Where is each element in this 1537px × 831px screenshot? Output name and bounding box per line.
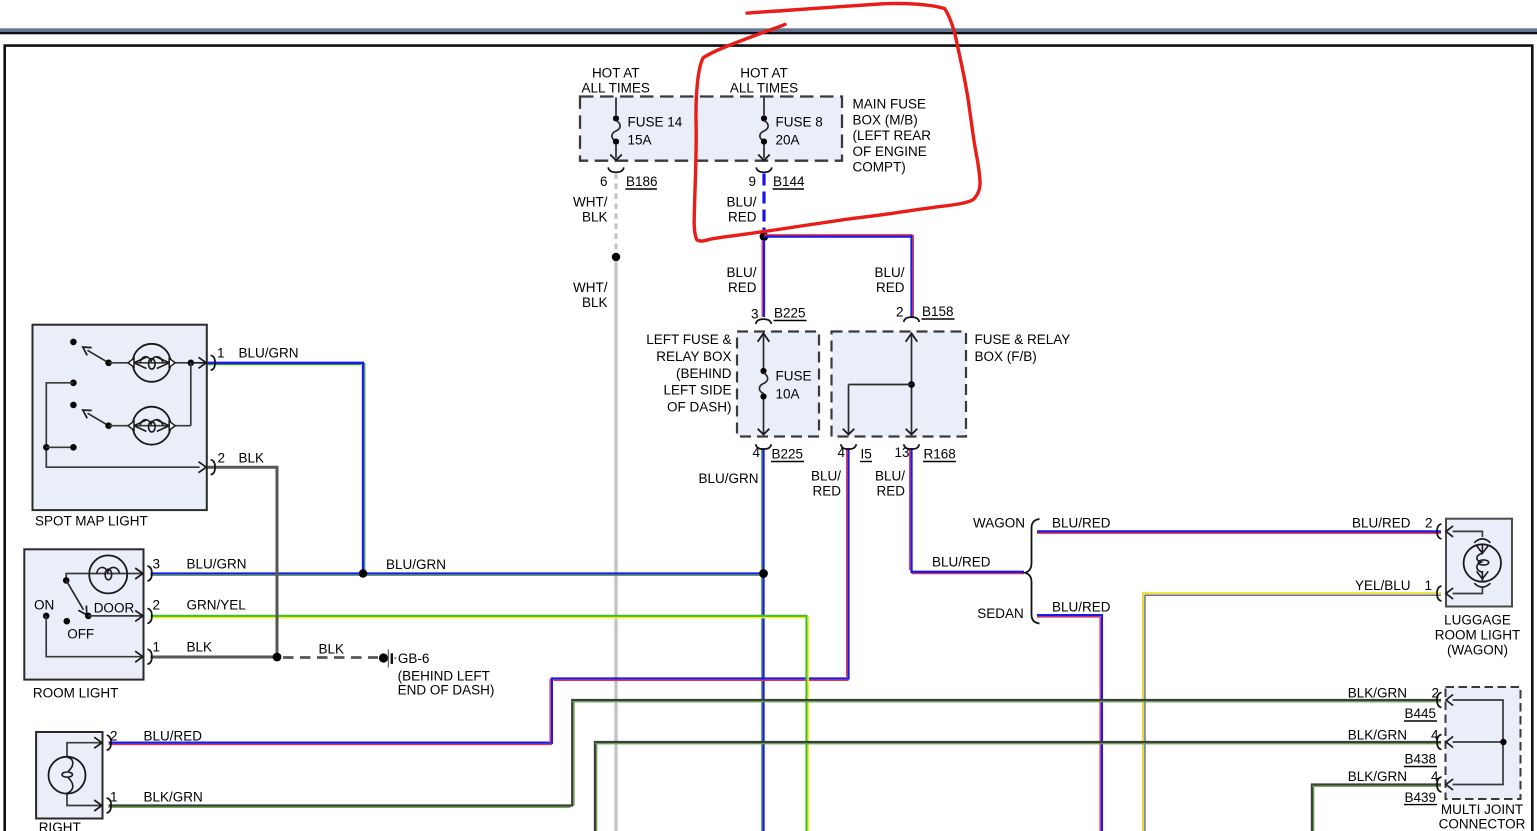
svg-text:LEFT FUSE &: LEFT FUSE & (646, 332, 731, 347)
svg-text:WHT/: WHT/ (573, 280, 608, 295)
wire BLU/RED from I5 pin4 down then left to RIGHT light pin2 (109, 448, 849, 743)
node junction dot BLU/GRN at B225 drop (759, 569, 768, 578)
svg-text:FUSE 14: FUSE 14 (628, 115, 683, 130)
connector B144 arc pin9 (756, 167, 772, 172)
svg-text:BLU/RED: BLU/RED (1052, 516, 1111, 531)
connector B225 arc pin3 above box (756, 319, 772, 324)
svg-text:BLU/RED: BLU/RED (932, 555, 991, 570)
svg-text:LUGGAGE: LUGGAGE (1444, 613, 1511, 628)
connector arc pin4 multi joint B438 (1437, 735, 1442, 750)
right light pin2 arrow (94, 737, 102, 748)
svg-text:LEFT SIDE: LEFT SIDE (663, 383, 731, 398)
svg-text:BLK: BLK (187, 640, 213, 655)
svg-text:GRN/YEL: GRN/YEL (187, 598, 247, 613)
svg-text:B445: B445 (1405, 706, 1437, 721)
svg-text:9: 9 (748, 174, 756, 189)
svg-text:1: 1 (1424, 578, 1432, 593)
svg-text:B158: B158 (922, 304, 954, 319)
room light pin3 arrow (135, 568, 143, 579)
svg-text:SPOT MAP LIGHT: SPOT MAP LIGHT (35, 514, 148, 529)
svg-text:10A: 10A (776, 387, 800, 402)
top window divider band (0, 28, 1537, 32)
svg-text:BLU/: BLU/ (726, 265, 756, 280)
connector arc pin4 multi joint B439 (1437, 777, 1442, 792)
wire BLK dashed to ground GB-6 (283, 656, 378, 659)
connector B158 arc pin2 above box (904, 317, 920, 322)
connector arc pin1 right light (107, 798, 112, 813)
room light OFF contact (64, 618, 71, 625)
svg-text:BLU/GRN: BLU/GRN (187, 557, 247, 572)
wire BLU/RED horizontal from junction to B158 drop (764, 234, 913, 236)
svg-text:RED: RED (728, 210, 757, 225)
svg-text:2: 2 (896, 305, 904, 320)
svg-text:FUSE & RELAY: FUSE & RELAY (975, 332, 1071, 347)
svg-text:2: 2 (152, 598, 160, 613)
right light internal wires (67, 743, 101, 806)
svg-text:BLK: BLK (582, 295, 608, 310)
room light lamp feed wire (66, 574, 142, 581)
right light box (36, 732, 102, 819)
svg-text:2: 2 (217, 451, 225, 466)
connector arc pin2 luggage (1437, 524, 1442, 539)
fuse F14 FUSE 14 15A symbol (610, 115, 622, 160)
svg-text:15A: 15A (628, 133, 652, 148)
connector arc pin1 luggage (1437, 586, 1442, 601)
connector B186 arc pin6 (608, 167, 624, 172)
svg-text:4: 4 (837, 445, 845, 460)
svg-text:20A: 20A (776, 133, 800, 148)
svg-text:B225: B225 (772, 447, 804, 462)
svg-text:4: 4 (1431, 769, 1439, 784)
luggage light lamp (1464, 539, 1501, 587)
svg-text:BLU/RED: BLU/RED (1352, 516, 1411, 531)
room light DOOR contact (85, 613, 92, 620)
svg-text:B438: B438 (1405, 752, 1437, 767)
fuse F14 lead-in wire (615, 98, 617, 116)
svg-text:COMPT): COMPT) (853, 160, 906, 175)
wire BLK/GRN from RIGHT light pin1 right, up, to MULTI JOINT pin2 (109, 700, 1442, 806)
svg-text:END OF DASH): END OF DASH) (398, 683, 495, 698)
svg-text:4: 4 (752, 445, 760, 460)
brace WAGON/SEDAN split (1025, 519, 1040, 624)
svg-text:FUSE: FUSE (776, 369, 812, 384)
svg-text:BOX (M/B): BOX (M/B) (853, 112, 918, 127)
svg-text:I5: I5 (861, 447, 872, 462)
svg-text:BLU/GRN: BLU/GRN (239, 346, 299, 361)
node junction dot BLU/GRN at x363 (359, 569, 367, 577)
svg-text:MULTI JOINT: MULTI JOINT (1441, 802, 1523, 817)
svg-text:ALL TIMES: ALL TIMES (582, 81, 650, 96)
wire WHT/BLK dashed from B186 (615, 174, 618, 254)
svg-text:(LEFT REAR: (LEFT REAR (853, 128, 932, 143)
svg-text:B186: B186 (626, 174, 658, 189)
svg-text:CONNECTOR: CONNECTOR (1439, 816, 1526, 831)
wire BLK from ROOM LIGHT pin1 to junction (151, 656, 278, 659)
wire BLU/RED WAGON branch to LUGGAGE pin2 (1037, 530, 1441, 532)
wire BLK from SPOT MAP pin2 right then down to ROOM LIGHT pin1 wire (151, 467, 278, 657)
wire BLU/RED from R168 pin13 down then right to brace (912, 448, 1025, 572)
connector I5 arc pin4 below box (841, 444, 857, 449)
fuse FUSE 10A symbol inside left box (758, 333, 770, 434)
spot map lamp1 wire (109, 362, 191, 364)
right light pin1 arrow (94, 800, 102, 811)
fuse F8 lead-in wire (763, 98, 765, 116)
node junction dot on WHT/BLK wire (612, 253, 620, 261)
wire BLU/RED vertical down to B158 (910, 235, 912, 317)
wire BLU/GRN from B225 pin4 down to junction (762, 448, 764, 831)
luggage light internal wires (1453, 531, 1483, 593)
svg-text:BLK: BLK (319, 642, 345, 657)
svg-text:BLU/RED: BLU/RED (1052, 600, 1111, 615)
wire WHT/BLK solid vertical to bottom (614, 261, 617, 831)
svg-text:BLU/: BLU/ (874, 265, 904, 280)
room light ON contact (43, 613, 50, 620)
svg-text:BLK/GRN: BLK/GRN (1348, 728, 1407, 743)
svg-text:DOOR: DOOR (94, 601, 135, 616)
svg-text:YEL/BLU: YEL/BLU (1355, 578, 1411, 593)
svg-text:2: 2 (1431, 686, 1439, 701)
fuse and relay box F/B (832, 332, 967, 437)
connector R168 arc pin13 below box (904, 444, 920, 449)
svg-text:1: 1 (152, 640, 160, 655)
svg-text:ON: ON (34, 598, 54, 613)
svg-text:RED: RED (728, 280, 757, 295)
connector arc pin2 multi joint B445 (1437, 693, 1442, 708)
ground GB-6 symbol (379, 653, 388, 662)
wire BLU/RED dashed from B144 (762, 174, 765, 233)
svg-text:HOT AT: HOT AT (592, 66, 640, 81)
svg-text:RELAY BOX: RELAY BOX (656, 349, 731, 364)
spot map pin1 arrow (191, 357, 206, 368)
svg-text:BLU/RED: BLU/RED (144, 729, 203, 744)
svg-text:1: 1 (217, 346, 225, 361)
svg-text:RIGHT: RIGHT (39, 820, 81, 831)
multi joint pin4 arrow B439 (1446, 779, 1453, 790)
spot map node junction lamp1 out (188, 360, 195, 367)
svg-text:BLK: BLK (239, 451, 265, 466)
svg-text:FUSE 8: FUSE 8 (776, 115, 823, 130)
multi joint internal bus (1453, 700, 1507, 785)
svg-text:3: 3 (751, 307, 759, 322)
svg-text:2: 2 (1425, 516, 1433, 531)
svg-text:HOT AT: HOT AT (740, 66, 788, 81)
svg-text:BLU/GRN: BLU/GRN (699, 471, 759, 486)
svg-text:MAIN FUSE: MAIN FUSE (853, 97, 927, 112)
svg-text:1: 1 (110, 790, 118, 805)
room light box (24, 549, 143, 679)
spot map pin2 arrow (199, 462, 207, 473)
svg-text:RED: RED (876, 484, 905, 499)
multi joint pin2 arrow (1446, 695, 1453, 706)
svg-text:WAGON: WAGON (973, 516, 1025, 531)
svg-text:RED: RED (812, 484, 841, 499)
svg-text:BLK/GRN: BLK/GRN (1348, 769, 1407, 784)
connector arc pin2 right light (107, 735, 112, 750)
wire BLU/GRN horizontal from ROOM LIGHT pin3 to B225 junction (151, 572, 764, 574)
svg-text:ROOM LIGHT: ROOM LIGHT (1435, 628, 1521, 643)
luggage pin1 arrow (1446, 588, 1453, 599)
room light pin2 arrow (135, 610, 143, 621)
spot map switch2 lever (83, 410, 112, 429)
svg-text:B144: B144 (773, 174, 805, 189)
svg-text:ROOM LIGHT: ROOM LIGHT (33, 686, 119, 701)
wire BLU/RED vertical from junction down to B225 pin3 (763, 240, 765, 317)
room light ON to pin1 wire (46, 616, 142, 657)
svg-text:2: 2 (110, 729, 118, 744)
svg-text:BOX (F/B): BOX (F/B) (975, 349, 1037, 364)
svg-text:OF ENGINE: OF ENGINE (853, 144, 927, 159)
svg-text:BLU/GRN: BLU/GRN (386, 557, 446, 572)
wire BLK/GRN B439 from off page bottom up then right to MULTI JOINT lower pin4 (1312, 785, 1441, 831)
spot map switch2 contact node (70, 402, 77, 409)
svg-text:GB-6: GB-6 (398, 651, 430, 666)
svg-text:13: 13 (894, 445, 909, 460)
svg-text:RED: RED (876, 280, 905, 295)
F/B internal feed wire with junction (843, 333, 918, 434)
annotation red hand-drawn loop (694, 4, 980, 242)
left fuse and relay box (737, 332, 819, 437)
svg-text:BLK: BLK (582, 210, 608, 225)
spot map lamp1 (128, 344, 175, 382)
room light switch lever (63, 577, 87, 615)
wire BLU/RED SEDAN branch down off page (1037, 615, 1102, 831)
svg-text:B439: B439 (1405, 790, 1437, 805)
fuse F8 FUSE 8 20A symbol (758, 115, 770, 160)
luggage pin2 arrow (1446, 526, 1453, 537)
spot map switch1 contact node (70, 339, 77, 346)
wire BLU/GRN from SPOT MAP pin1 right then down to junction (151, 363, 364, 574)
svg-text:WHT/: WHT/ (573, 195, 608, 210)
connector arc pin2 spot map (211, 460, 216, 475)
wire BLK/GRN B438 from off page bottom up then right to MULTI JOINT pin4 (595, 742, 1441, 831)
svg-text:(BEHIND: (BEHIND (676, 366, 732, 381)
node junction dot B144 feed (760, 232, 769, 241)
svg-text:R168: R168 (924, 447, 956, 462)
svg-text:4: 4 (1431, 728, 1439, 743)
room light lamp (89, 555, 127, 593)
node junction dot BLK (273, 653, 282, 662)
multi joint pin4 arrow B438 (1446, 737, 1453, 748)
svg-text:BLU/: BLU/ (726, 195, 756, 210)
svg-text:OF DASH): OF DASH) (667, 400, 732, 415)
spot map ground rail (43, 380, 200, 468)
svg-text:BLK/GRN: BLK/GRN (144, 790, 203, 805)
connector arc pin3 room light (147, 566, 152, 581)
spot map light box (33, 325, 207, 510)
svg-text:(WAGON): (WAGON) (1447, 643, 1508, 658)
svg-text:SEDAN: SEDAN (977, 606, 1024, 621)
svg-text:BLU/: BLU/ (875, 469, 905, 484)
multi joint connector box (1446, 687, 1521, 799)
spot map lamp2 to junction riser (190, 363, 192, 426)
svg-text:BLU/: BLU/ (811, 469, 841, 484)
room light pin1 arrow (135, 651, 143, 662)
right light lamp (49, 757, 86, 794)
spot map lamp2 (128, 407, 175, 445)
svg-text:BLK/GRN: BLK/GRN (1348, 686, 1407, 701)
spot map lamp2 wire (109, 425, 191, 427)
main fuse box M/B (580, 97, 842, 161)
connector arc pin1 spot map (211, 355, 216, 370)
svg-text:6: 6 (600, 174, 608, 189)
svg-text:ALL TIMES: ALL TIMES (730, 81, 798, 96)
wire GRN/YEL from ROOM LIGHT pin2 right then down off page (151, 616, 807, 831)
room light DOOR to pin2 wire (88, 615, 142, 617)
svg-text:(BEHIND LEFT: (BEHIND LEFT (398, 669, 490, 684)
luggage room light box (1446, 519, 1512, 607)
svg-text:3: 3 (152, 557, 160, 572)
svg-text:B225: B225 (774, 306, 806, 321)
connector arc pin2 room light (147, 608, 152, 623)
connector B225 arc pin4 below box (756, 444, 772, 449)
svg-text:OFF: OFF (67, 627, 94, 642)
wire YEL/BLU from LUGGAGE pin1 left and down off page (1143, 594, 1441, 831)
connector arc pin1 room light (147, 649, 152, 664)
spot map switch1 lever (83, 347, 112, 366)
